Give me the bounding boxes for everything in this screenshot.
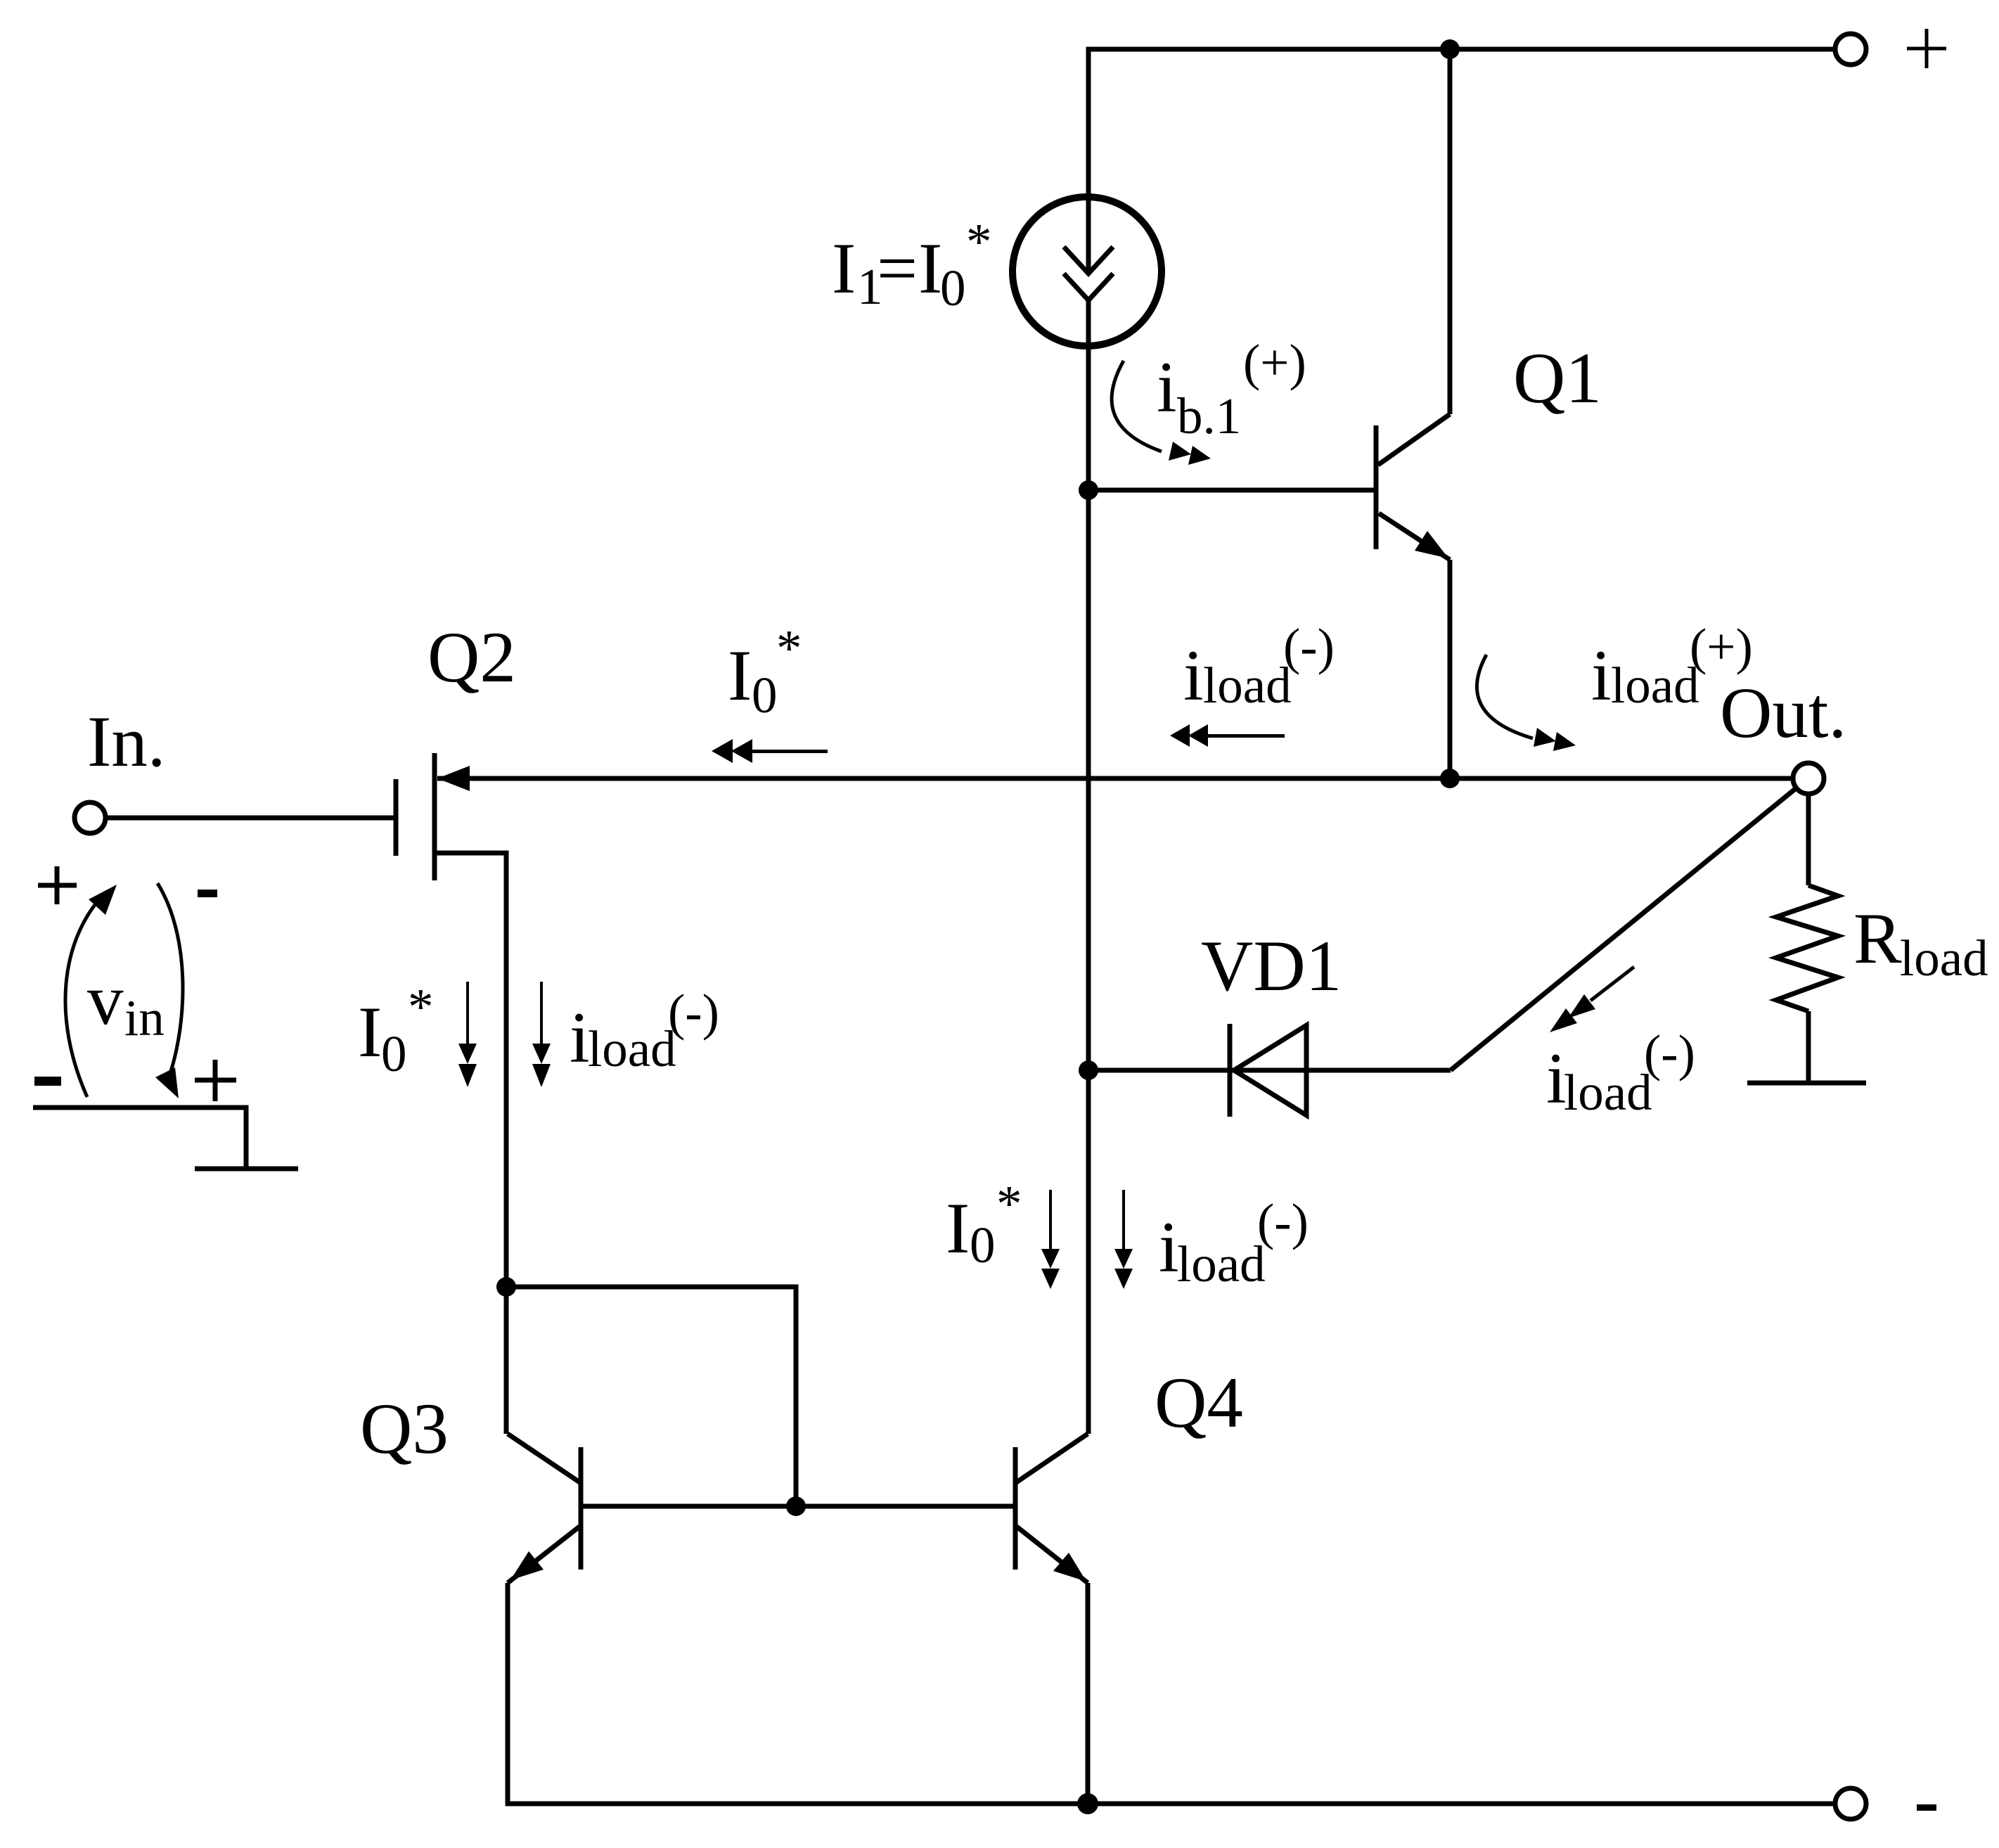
wire base rail Q3-Q4 [581, 1504, 1015, 1509]
svg-text:load: load [1564, 1064, 1652, 1121]
svg-text:I: I [918, 229, 942, 309]
thin down arrow 1 near Q4 [1041, 1190, 1060, 1289]
svg-text:load: load [1900, 930, 1988, 987]
current source I1 [1013, 197, 1162, 346]
wire diagonal Out to VD1 [1451, 789, 1795, 1070]
label I0* above left arrow [728, 620, 802, 724]
vin - top [198, 890, 217, 897]
label - (supply) [1917, 1804, 1936, 1811]
svg-text:b.1: b.1 [1177, 387, 1241, 444]
resistor Rload [1776, 794, 1838, 1082]
label i_load(-) bottom right [1546, 1025, 1695, 1121]
node Q1 base / center column [1079, 480, 1098, 500]
svg-text:I: I [946, 1188, 970, 1269]
curved arrow i_load(+) [1477, 655, 1576, 751]
svg-text:*: * [996, 1175, 1022, 1232]
label vin [87, 960, 165, 1046]
svg-text:*: * [966, 213, 992, 270]
svg-text:I: I [728, 636, 752, 716]
thin diagonal arrow i_load(-) [1550, 967, 1634, 1032]
svg-text:Q2: Q2 [428, 617, 516, 698]
ground Rload [1747, 1081, 1866, 1086]
svg-text:0: 0 [970, 1217, 996, 1273]
svg-text:i: i [1159, 1207, 1179, 1288]
svg-text:(-): (-) [1257, 1193, 1309, 1250]
node base rail / tie [786, 1496, 806, 1516]
vin + bottom [195, 1060, 236, 1101]
svg-text:(+): (+) [1243, 334, 1306, 391]
svg-text:i: i [1183, 636, 1204, 716]
svg-text:(+): (+) [1690, 618, 1753, 675]
label I0* near Q4 column [946, 1175, 1022, 1273]
node top rail / Q1 collector [1440, 39, 1460, 59]
thin down arrow 2 near Q2 [532, 982, 551, 1087]
svg-text:Q4: Q4 [1155, 1363, 1243, 1443]
thin down arrow 1 near Q2 [458, 982, 477, 1087]
svg-text:load: load [1203, 657, 1292, 714]
label i_load(+) [1591, 618, 1753, 716]
vin left arc with arrow [65, 885, 117, 1097]
svg-text:v: v [87, 960, 124, 1040]
wire Q3 emitter column and bottom rail [508, 1583, 1834, 1804]
svg-text:R: R [1853, 899, 1902, 979]
svg-text:i: i [570, 998, 590, 1078]
vin ground wire [33, 1108, 246, 1169]
label I1=I0* [832, 213, 992, 316]
terminal - negative supply [1835, 1788, 1866, 1819]
transistor Q2 [105, 753, 506, 1287]
svg-text:(-): (-) [1283, 618, 1335, 675]
svg-text:In.: In. [87, 702, 166, 782]
svg-text:Q3: Q3 [360, 1389, 449, 1469]
svg-text:in: in [124, 989, 165, 1046]
svg-text:i: i [1591, 636, 1612, 716]
svg-text:VD1: VD1 [1201, 926, 1342, 1006]
svg-text:load: load [588, 1020, 676, 1077]
svg-text:*: * [408, 978, 434, 1035]
svg-text:Out.: Out. [1720, 673, 1846, 753]
arrow i_load(-) left [1170, 724, 1285, 747]
node Q1 emitter / out line [1440, 769, 1460, 788]
thin down arrow 2 near Q4 [1114, 1190, 1133, 1289]
svg-text:i: i [1157, 347, 1177, 428]
node bottom rail / Q4 emitter [1077, 1793, 1098, 1814]
svg-text:I: I [358, 992, 382, 1072]
wire out line [437, 776, 1794, 781]
vin right arc with arrow [155, 883, 183, 1098]
wire Q3 collector-base tie [506, 1287, 796, 1506]
svg-text:=: = [877, 229, 918, 309]
vin - bottom left [34, 1077, 61, 1086]
svg-text:load: load [1177, 1236, 1266, 1292]
transistor Q4 [1015, 1434, 1088, 1583]
svg-text:(-): (-) [1644, 1025, 1695, 1082]
terminal + positive supply [1835, 34, 1866, 65]
svg-text:Q1: Q1 [1513, 338, 1602, 418]
svg-text:0: 0 [752, 667, 778, 724]
svg-text:I: I [832, 229, 856, 309]
label i_load(-) near Q2 column [570, 984, 719, 1078]
transistor Q3 [508, 1434, 581, 1583]
label i_load(-) mid [1183, 618, 1335, 716]
terminal Out [1793, 763, 1824, 794]
arrow I0* left [712, 739, 828, 763]
wire center column [1086, 300, 1091, 1434]
svg-text:0: 0 [381, 1025, 407, 1082]
label I0* near Q2 column [358, 978, 434, 1082]
label + (supply) [1907, 29, 1946, 68]
label i_b.1 (+) [1157, 334, 1306, 444]
curved arrow i_b.1 [1112, 361, 1211, 465]
label i_load(-) near Q4 column [1159, 1193, 1309, 1292]
transistor Q1 [1088, 49, 1450, 778]
vin + top left [38, 866, 77, 904]
svg-text:0: 0 [940, 259, 966, 316]
node Q2 column / Q3 tie [496, 1277, 516, 1297]
diode VD1 [1079, 1024, 1451, 1117]
wire top rail [1088, 49, 1834, 274]
svg-text:load: load [1611, 657, 1699, 714]
wire Q4 emitter column [1086, 1583, 1091, 1804]
terminal In [75, 802, 105, 833]
wire Q2 source column [504, 1287, 509, 1434]
svg-text:(-): (-) [668, 984, 719, 1041]
ground vin [195, 1167, 298, 1172]
svg-text:*: * [776, 620, 802, 676]
